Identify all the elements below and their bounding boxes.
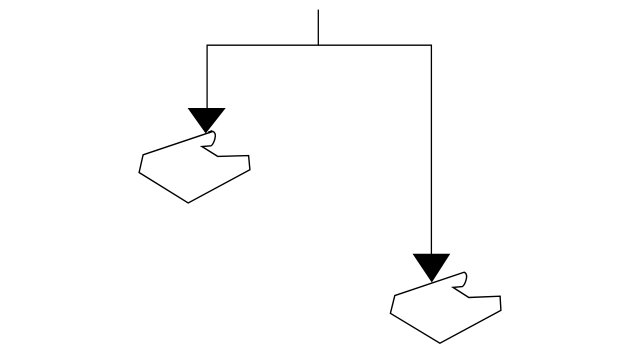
arrowhead: right (filled triangle) — [413, 254, 451, 283]
wire: horizontal bus bar — [207, 44, 433, 46]
node: right freeform blob shape — [390, 272, 501, 343]
node: left freeform blob shape — [139, 131, 250, 203]
wire: left branch vertical — [206, 45, 208, 112]
wire: top vertical stub — [317, 10, 319, 46]
arrowhead: left (filled triangle) — [188, 108, 226, 134]
wire: right branch vertical — [430, 45, 432, 257]
